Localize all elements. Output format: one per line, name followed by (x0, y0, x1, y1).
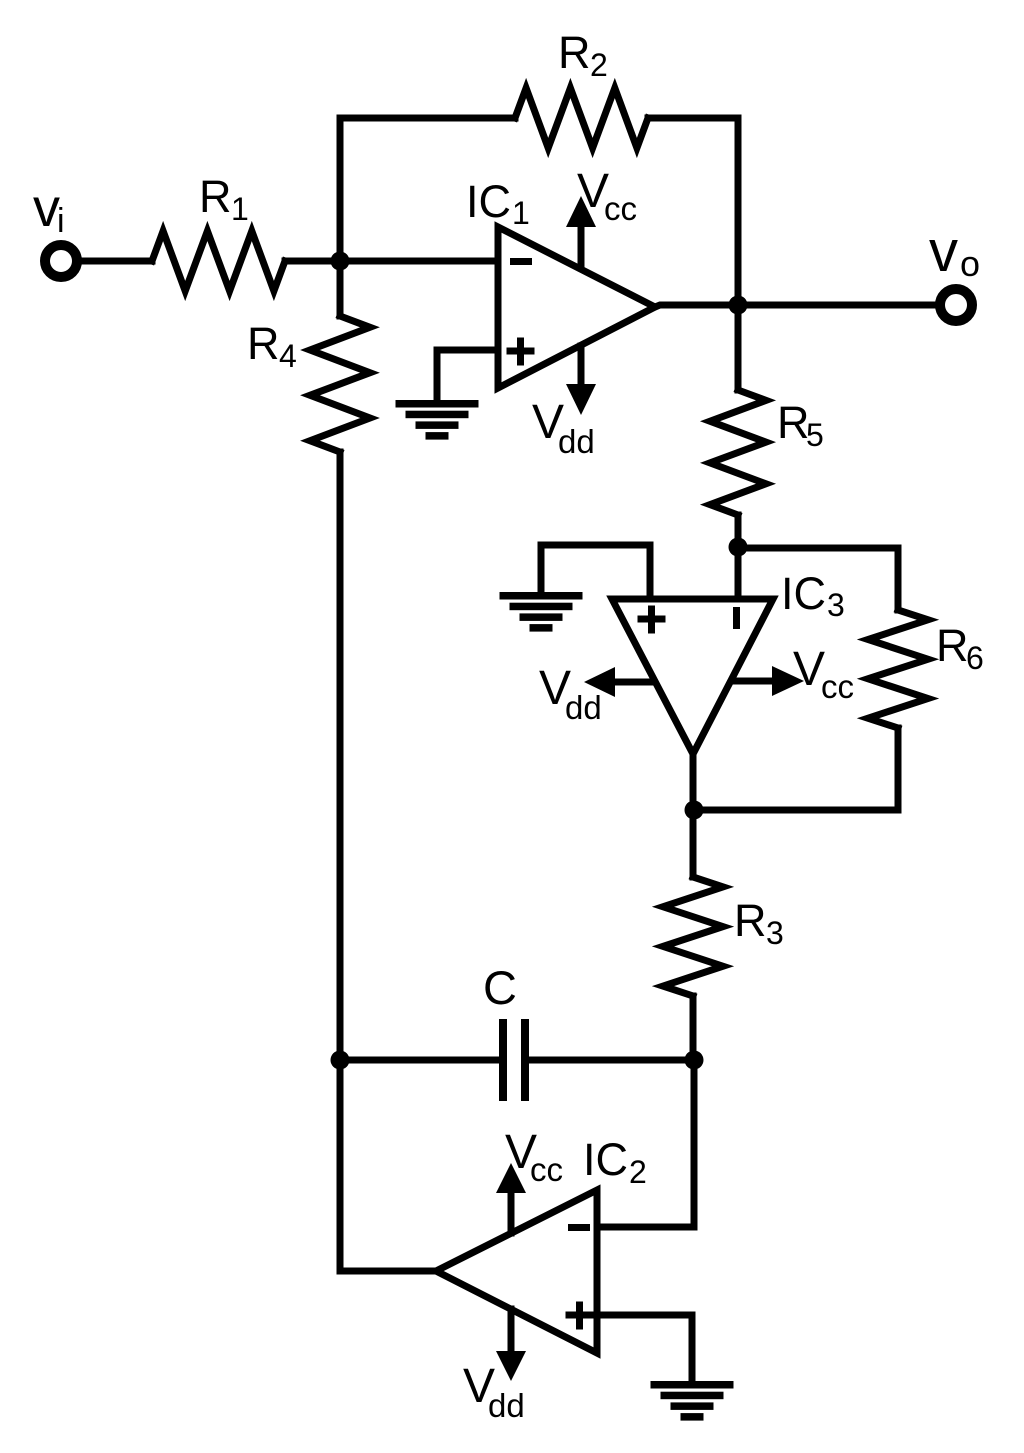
wire R6 bottom to node C (694, 728, 898, 810)
svg-text:cc: cc (530, 1151, 563, 1188)
svg-text:R: R (247, 318, 280, 369)
wire IC3 plus input to ground (541, 545, 650, 599)
wire IC1 output to vo (655, 305, 936, 307)
ground (IC2 non-inverting input) (651, 1381, 734, 1389)
wire rail to C left plate (340, 1057, 499, 1064)
node A (input summing node) (331, 252, 350, 271)
svg-text:2: 2 (629, 1154, 647, 1190)
wire R3 to node D (690, 996, 697, 1060)
svg-text:cc: cc (604, 190, 637, 227)
wire C right plate to node D (529, 1057, 694, 1064)
svg-text:dd: dd (558, 423, 595, 460)
wire R1 to IC1 inverting input (285, 258, 498, 265)
IC2 minus sign (568, 1224, 590, 1231)
wire IC1 plus input to ground (437, 350, 498, 400)
IC2 Vcc arrow (508, 1194, 515, 1233)
terminal vi (45, 245, 77, 277)
wire node D down to IC2 minus input (597, 1060, 694, 1227)
svg-text:R: R (734, 895, 767, 946)
svg-text:R: R (777, 397, 810, 448)
resistor R4 (310, 316, 370, 452)
svg-text:3: 3 (766, 915, 784, 951)
IC1 Vcc arrow (578, 225, 585, 268)
IC2 plus sign (569, 1305, 590, 1326)
resistor R6 (868, 610, 928, 728)
svg-text:IC: IC (781, 568, 826, 619)
IC1 Vdd arrow (578, 346, 585, 386)
wire R2 top right and right leg down to output node (648, 118, 738, 305)
svg-text:5: 5 (806, 417, 824, 453)
wire R2 top left (340, 115, 515, 122)
ground (IC1 non-inverting input) (396, 400, 479, 408)
IC2 Vdd arrow (508, 1309, 515, 1353)
IC1 minus sign (510, 258, 532, 265)
wire left rail down to IC2 (340, 452, 436, 1271)
svg-text:C: C (483, 961, 517, 1014)
svg-text:dd: dd (488, 1387, 525, 1424)
svg-text:IC: IC (466, 176, 511, 227)
svg-text:R: R (199, 171, 232, 222)
resistor R3 (663, 877, 723, 996)
IC3 Vdd arrow (left) (615, 679, 654, 686)
svg-text:6: 6 (966, 640, 984, 676)
svg-text:dd: dd (565, 689, 602, 726)
node D (C right / R3 / IC2 minus) (685, 1051, 704, 1070)
svg-text:1: 1 (231, 191, 249, 227)
svg-text:o: o (960, 243, 980, 284)
op-amp IC1 (498, 227, 655, 388)
svg-text:3: 3 (827, 587, 845, 623)
capacitor C (499, 1019, 507, 1101)
svg-text:IC: IC (583, 1134, 628, 1185)
resistor R1 (152, 231, 285, 291)
ground (IC3 non-inverting input) (500, 592, 583, 600)
wire vi to R1 (82, 258, 152, 265)
node C (IC3 out / R6) (685, 801, 704, 820)
terminal vo (940, 289, 972, 321)
wire IC3 output (690, 754, 697, 877)
resistor R2 (515, 88, 648, 148)
svg-text:4: 4 (279, 338, 297, 374)
op-amp IC2 (points left) (436, 1190, 597, 1353)
svg-text:R: R (936, 620, 969, 671)
svg-text:R: R (558, 27, 591, 78)
wire node B to R6 top (738, 548, 898, 610)
node E (C left on rail) (331, 1051, 350, 1070)
wire output node to R5 (735, 305, 742, 390)
wire left rail top (R2 left leg) (337, 118, 344, 316)
wire IC2 plus input to ground (597, 1315, 692, 1381)
IC3 plus sign (641, 609, 662, 630)
svg-text:2: 2 (590, 47, 608, 83)
wire node B to IC3 inverting input (735, 548, 742, 599)
wire R5 to node B (735, 515, 742, 548)
op-amp IC3 (points down) (612, 599, 773, 754)
IC3 Vcc arrow (right) (732, 678, 772, 685)
resistor R5 (710, 390, 766, 515)
node B (R5 / IC3 minus / R6) (729, 538, 748, 557)
svg-text:v: v (929, 219, 958, 284)
svg-text:cc: cc (821, 668, 854, 705)
svg-text:i: i (57, 202, 65, 240)
IC1 plus sign (510, 341, 531, 362)
svg-text:v: v (33, 178, 60, 238)
IC3 minus sign (vertical) (733, 607, 740, 629)
svg-text:1: 1 (512, 195, 530, 231)
node output (729, 296, 748, 315)
